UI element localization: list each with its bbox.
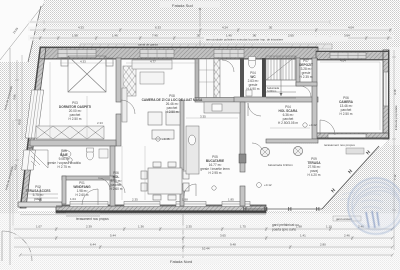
dimension chain left columns <box>15 55 22 200</box>
svg-text:2.39: 2.39 <box>86 225 92 229</box>
svg-text:H 2.95 m: H 2.95 m <box>209 171 222 175</box>
svg-text:5.44: 5.44 <box>110 234 116 238</box>
svg-text:2.46: 2.46 <box>344 234 350 238</box>
dimension chain right column <box>392 50 396 250</box>
svg-text:Fatada Nord: Fatada Nord <box>170 259 192 264</box>
property line top-left diagonal <box>0 4 44 60</box>
stair arrow <box>280 58 282 96</box>
window W3 top <box>214 50 244 58</box>
svg-text:H 2.50 m: H 2.50 m <box>69 117 82 121</box>
wall: bottom exterior (north facade) <box>18 202 266 213</box>
door arc dormitor <box>121 100 135 114</box>
wall: baie/hol partition <box>110 146 115 206</box>
room label camera de zi <box>142 94 203 114</box>
wall: left exterior slanted <box>20 47 46 208</box>
svg-text:7.12: 7.12 <box>393 174 397 180</box>
wall: dormitor/living partition <box>116 58 121 102</box>
wall: camera bottom <box>316 133 389 139</box>
svg-text:H 4.90 m: H 4.90 m <box>247 87 260 91</box>
svg-text:6.44: 6.44 <box>90 243 96 247</box>
tv cabinet living <box>122 88 127 122</box>
svg-text:2.35: 2.35 <box>132 198 138 202</box>
svg-text:1.04: 1.04 <box>70 197 76 201</box>
door arc corridor wc <box>222 60 234 72</box>
door arc baie <box>98 178 110 190</box>
room label wc <box>247 71 260 91</box>
svg-text:1.07: 1.07 <box>36 225 42 229</box>
wall: corridor/wc to stairs (dark) <box>262 58 266 100</box>
svg-text:2.35: 2.35 <box>186 225 192 229</box>
svg-text:4.24: 4.24 <box>222 26 228 30</box>
svg-text:1.46: 1.46 <box>112 34 118 38</box>
wc sink <box>246 90 252 96</box>
window N1 bottom <box>124 202 160 207</box>
wall: bucatarie north <box>195 98 240 103</box>
svg-text:H 2.50 m: H 2.50 m <box>166 110 179 114</box>
pillar terrace NW <box>239 154 246 163</box>
svg-text:h=90cm: h=90cm <box>267 89 276 93</box>
terrain step near camera corner <box>346 148 364 154</box>
svg-text:.30: .30 <box>196 34 201 38</box>
wardrobe living left <box>123 66 136 96</box>
wall: stairs/camera partition <box>312 58 317 139</box>
terasa acces steps <box>22 186 58 202</box>
kitchen counter L <box>186 102 240 174</box>
wardrobe row dormitor <box>36 126 104 139</box>
dining table + chairs <box>141 162 189 200</box>
svg-text:1.75: 1.75 <box>240 225 246 229</box>
window camera right <box>384 72 389 106</box>
room label hol <box>110 171 123 191</box>
fence post H symbols diagonal <box>330 149 372 194</box>
svg-text:pavaj: pavaj <box>34 197 42 201</box>
wall: top exterior (south facade) <box>40 47 389 60</box>
svg-text:gard prefabricat cu: gard prefabricat cu <box>272 223 299 227</box>
svg-text:.30: .30 <box>268 26 273 30</box>
svg-text:4.33: 4.33 <box>80 60 86 64</box>
svg-text:terasament nou propus: terasament nou propus <box>324 143 355 147</box>
room label camera <box>339 96 354 116</box>
footing line below bottom wall <box>20 214 266 216</box>
slash ticks bottom rows <box>19 228 394 257</box>
fence post H symbols bottom <box>243 207 320 213</box>
window dormitor left slant wall <box>25 90 43 138</box>
terrace columns <box>260 146 302 156</box>
svg-text:balustrada 0-90cm: balustrada 0-90cm <box>268 163 293 167</box>
svg-text:4.04: 4.04 <box>340 59 346 63</box>
level markers <box>68 123 307 190</box>
fence diagonal to NE <box>322 146 379 209</box>
wall: windfang left <box>62 176 114 180</box>
svg-text:6.33: 6.33 <box>155 26 161 30</box>
baie shower corner <box>30 150 48 168</box>
wall: bucatarie right vertical <box>240 102 245 172</box>
svg-text:7.40: 7.40 <box>152 34 158 38</box>
svg-text:H 4.20 m: H 4.20 m <box>308 173 321 177</box>
svg-text:1.98: 1.98 <box>182 198 188 202</box>
wall: hol scara south / terrace edge <box>266 139 318 143</box>
canal de garda band <box>80 43 332 50</box>
camera bottom wall dark edge <box>316 137 389 139</box>
room label dormitor oaspeti <box>59 101 91 121</box>
window dim ticks above bottom wall <box>70 197 234 202</box>
baie toilet <box>87 148 94 160</box>
door arc windfang entry <box>82 189 98 205</box>
window N0 bottom <box>70 202 108 207</box>
svg-text:H 2.50/3.05 m: H 2.50/3.05 m <box>278 121 298 125</box>
wc toilet <box>249 57 256 69</box>
svg-text:4.33: 4.33 <box>78 26 84 30</box>
door arc terasa from corridor <box>252 143 263 154</box>
wall living/closet <box>195 59 199 98</box>
termoizolatie note <box>204 37 348 42</box>
window W4 camera top <box>330 53 366 59</box>
stamp blue circular <box>340 178 400 234</box>
svg-text:1.85: 1.85 <box>228 198 234 202</box>
svg-text:4.04: 4.04 <box>348 26 354 30</box>
survey marker vertical top <box>199 8 201 46</box>
window W2 top <box>140 50 174 58</box>
room label bucatarie <box>200 155 230 175</box>
wall: depozit left <box>296 58 300 86</box>
svg-text:H: H <box>264 207 268 213</box>
svg-text:H 2.35 m: H 2.35 m <box>300 75 313 79</box>
wall: living/bucatarie partition <box>180 100 184 170</box>
dimension numbers bottom <box>36 225 364 251</box>
svg-text:3.65: 3.65 <box>220 234 226 238</box>
svg-text:+0.42: +0.42 <box>309 123 317 127</box>
window W1 top <box>58 50 96 58</box>
window N3 bottom <box>222 202 250 207</box>
sideboard living top <box>132 60 172 84</box>
bottom wall dark core <box>56 210 266 212</box>
svg-text:1.10: 1.10 <box>326 225 332 229</box>
white margin top-left corner <box>0 0 44 62</box>
tint right texture strip <box>389 47 400 145</box>
washing machine baie <box>99 149 108 158</box>
svg-text:1.41: 1.41 <box>300 234 306 238</box>
closet garderoba <box>199 59 214 98</box>
survey marker vertical bottom <box>182 214 184 258</box>
svg-text:H 2.75 m: H 2.75 m <box>58 165 71 169</box>
light wash over bottom annotation strip <box>0 214 400 270</box>
svg-text:+0.45: +0.45 <box>162 137 170 141</box>
svg-text:canal de garda: canal de garda <box>138 43 158 47</box>
dimension chain top row1 <box>30 28 392 32</box>
svg-text:poarta spre curte: poarta spre curte <box>272 228 296 232</box>
room label depozit <box>299 59 313 79</box>
svg-text:H: H <box>243 207 247 213</box>
dimension line top y22 <box>30 20 330 24</box>
svg-text:1.98: 1.98 <box>72 34 78 38</box>
wall: under wc horizontal <box>234 97 318 102</box>
svg-text:+0.12: +0.12 <box>264 183 272 187</box>
dormitor interior dim vertical <box>86 96 88 140</box>
top wall tone wash <box>40 47 318 59</box>
svg-text:9.48: 9.48 <box>230 243 236 247</box>
gate arc bottom-left <box>2 231 32 261</box>
window N2 bottom <box>176 202 206 207</box>
dimension chains bottom <box>14 227 392 255</box>
building footprint white <box>18 47 388 211</box>
door arc camera <box>320 120 335 135</box>
svg-text:H: H <box>288 207 292 213</box>
svg-text:H 2.60 m: H 2.60 m <box>110 187 123 191</box>
svg-text:2.80: 2.80 <box>320 243 326 247</box>
wall: right exterior of camera <box>383 50 389 139</box>
slash ticks top rows <box>39 29 392 40</box>
svg-text:4.18: 4.18 <box>393 89 397 95</box>
top wall outer dark edge <box>40 47 318 49</box>
svg-text:3.35: 3.35 <box>200 115 206 119</box>
door arc windfang/hol <box>114 182 125 193</box>
svg-text:H 2.50 m: H 2.50 m <box>340 112 353 116</box>
staircase treads <box>266 56 296 98</box>
interior dim line dormitor left <box>50 62 380 200</box>
depozit door arc <box>300 86 311 97</box>
baie sink <box>61 151 71 158</box>
room label terasa <box>307 157 321 177</box>
svg-text:H: H <box>316 207 320 213</box>
bed dormitor <box>61 56 113 92</box>
svg-text:Fatada Sud: Fatada Sud <box>172 3 193 8</box>
armchairs living <box>148 112 180 139</box>
wall closet/corridor <box>214 59 220 98</box>
svg-text:1.36: 1.36 <box>138 225 144 229</box>
svg-text:terasament nou propus: terasament nou propus <box>76 217 109 221</box>
svg-text:4.77: 4.77 <box>150 60 156 64</box>
room label windfang <box>73 181 91 197</box>
door arc bucatarie <box>184 184 196 196</box>
property line left <box>9 48 11 265</box>
dimension chain top row2 <box>30 36 392 40</box>
rotated dims left/diagonal <box>12 26 397 180</box>
wall: wc left (dark) <box>240 58 244 100</box>
gard viu label right <box>333 216 361 221</box>
entry steps windfang <box>66 213 100 216</box>
terrace white area <box>266 143 380 211</box>
door arc hol scara <box>248 103 261 116</box>
svg-text:limita de proprietate: limita de proprietate <box>394 105 398 130</box>
svg-text:termoizolatie polistiren extru: termoizolatie polistiren extrudat la par… <box>206 37 284 41</box>
svg-text:2.33: 2.33 <box>97 121 103 125</box>
svg-text:10.44: 10.44 <box>202 247 210 251</box>
camera right wall dark edge <box>388 50 390 139</box>
svg-text:H 2.60 m: H 2.60 m <box>76 193 89 197</box>
dimension numbers top <box>72 26 354 38</box>
room label baie <box>47 149 81 169</box>
room label terasa acces <box>26 185 51 201</box>
fence bottom row of terrace <box>245 208 322 210</box>
wall: baie/dormitor partition with wardrobe band <box>30 140 116 146</box>
left wall dark edge <box>28 48 41 149</box>
window baie left slant wall <box>22 150 36 170</box>
room label hol scara <box>278 105 298 125</box>
